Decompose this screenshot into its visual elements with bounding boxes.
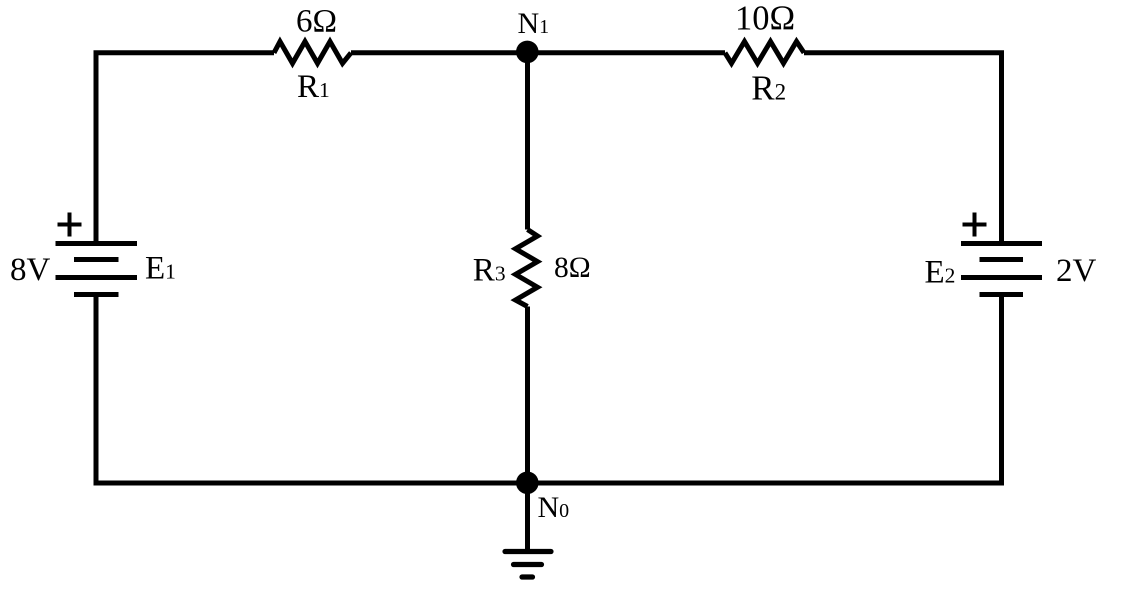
resistor R3 <box>516 230 538 307</box>
wire: middle vertical from R3 down to N0 <box>525 307 530 484</box>
svg-text:10Ω: 10Ω <box>735 0 795 37</box>
battery E1 plate 1 long <box>56 241 138 246</box>
polarity plus of E2 <box>963 213 987 237</box>
battery E1 plate 2 short <box>74 257 119 262</box>
battery E2 plate 1 long <box>961 241 1042 246</box>
battery E2 plate 4 short <box>980 292 1024 297</box>
svg-text:2V: 2V <box>1056 253 1097 289</box>
ground at N0 <box>505 483 551 577</box>
resistor R2 <box>725 42 804 64</box>
wire: bottom rail from E1 bottom plate around to E2 bottom plate <box>96 295 1002 484</box>
svg-text:8V: 8V <box>10 252 51 288</box>
node N1 junction dot <box>516 41 539 64</box>
wire: middle vertical from N1 down to R3 <box>525 53 530 230</box>
battery E2 plate 3 long <box>961 275 1042 280</box>
wire: top right segment from R2 to top-right corner down to E2 <box>804 53 1002 243</box>
node N0 junction dot <box>516 472 539 495</box>
battery E1 plate 3 long <box>56 275 138 280</box>
wire: top middle segment R1 to R2 through node N1 <box>351 50 725 55</box>
wire: left branch top (E1 plus plate up to top-left corner and across to R1) <box>96 53 274 243</box>
svg-text:6Ω: 6Ω <box>296 4 337 40</box>
resistor R1 <box>274 42 351 64</box>
polarity plus of E1 <box>58 213 82 237</box>
battery E2 plate 2 short <box>980 257 1024 262</box>
svg-text:8Ω: 8Ω <box>554 252 591 284</box>
battery E1 plate 4 short <box>74 292 119 297</box>
